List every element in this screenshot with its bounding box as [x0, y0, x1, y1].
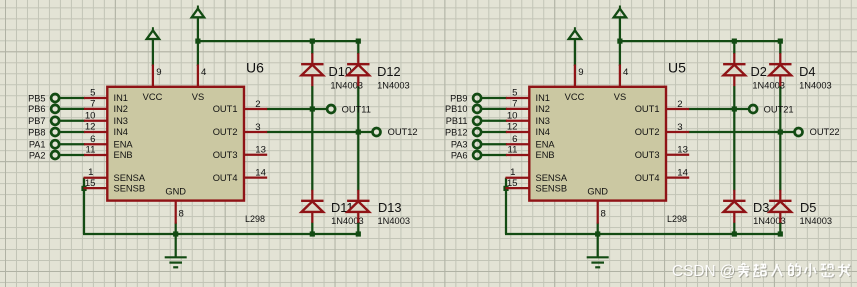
svg-text:OUT11: OUT11: [342, 104, 371, 114]
svg-text:OUT12: OUT12: [388, 127, 418, 137]
svg-text:OUT1: OUT1: [213, 104, 238, 114]
svg-text:ENB: ENB: [536, 150, 555, 160]
svg-text:6: 6: [90, 134, 95, 145]
svg-text:5: 5: [90, 88, 95, 99]
svg-text:PA1: PA1: [29, 140, 46, 150]
svg-text:10: 10: [85, 110, 96, 121]
svg-text:SENSA: SENSA: [114, 173, 146, 183]
svg-text:1N4003: 1N4003: [378, 216, 411, 226]
svg-text:IN4: IN4: [114, 127, 128, 137]
svg-text:1: 1: [88, 167, 93, 178]
svg-text:6: 6: [512, 134, 517, 145]
svg-text:U6: U6: [246, 60, 264, 76]
svg-text:14: 14: [677, 167, 688, 178]
svg-text:7: 7: [90, 99, 95, 110]
svg-text:1: 1: [510, 167, 515, 178]
svg-text:PA6: PA6: [451, 150, 468, 160]
svg-text:PA3: PA3: [451, 140, 468, 150]
svg-text:OUT4: OUT4: [635, 173, 660, 183]
svg-text:OUT2: OUT2: [635, 127, 660, 137]
svg-text:9: 9: [578, 67, 583, 78]
svg-text:12: 12: [85, 122, 96, 133]
svg-text:SENSB: SENSB: [114, 183, 146, 193]
svg-text:9: 9: [156, 67, 161, 78]
svg-text:IN1: IN1: [536, 93, 550, 103]
svg-text:ENA: ENA: [114, 139, 134, 149]
svg-text:10: 10: [507, 110, 518, 121]
svg-text:PB6: PB6: [28, 104, 45, 114]
svg-text:VS: VS: [192, 92, 204, 102]
svg-text:D4: D4: [799, 64, 815, 79]
svg-text:3: 3: [255, 122, 260, 133]
svg-text:13: 13: [255, 145, 266, 156]
svg-text:OUT21: OUT21: [764, 104, 794, 114]
svg-text:ENB: ENB: [114, 150, 133, 160]
svg-text:PB10: PB10: [445, 104, 467, 114]
svg-text:4: 4: [201, 67, 207, 78]
svg-text:PB8: PB8: [28, 127, 45, 137]
svg-text:OUT4: OUT4: [213, 173, 238, 183]
svg-text:15: 15: [85, 178, 96, 189]
svg-text:IN1: IN1: [114, 93, 128, 103]
svg-text:GND: GND: [587, 187, 608, 197]
svg-text:IN4: IN4: [536, 127, 550, 137]
svg-text:14: 14: [255, 167, 266, 178]
svg-text:D2: D2: [751, 64, 767, 79]
svg-text:1N4003: 1N4003: [800, 216, 833, 226]
svg-text:OUT3: OUT3: [213, 150, 238, 160]
svg-text:ENA: ENA: [536, 139, 556, 149]
svg-text:L298: L298: [245, 214, 265, 224]
svg-text:OUT1: OUT1: [635, 104, 660, 114]
svg-text:OUT2: OUT2: [213, 127, 238, 137]
svg-text:IN2: IN2: [114, 104, 128, 114]
svg-text:OUT22: OUT22: [810, 127, 840, 137]
svg-text:IN3: IN3: [114, 116, 128, 126]
svg-text:PB7: PB7: [28, 116, 45, 126]
svg-text:SENSA: SENSA: [536, 173, 568, 183]
svg-text:2: 2: [255, 99, 260, 110]
svg-text:8: 8: [601, 209, 606, 220]
svg-text:D13: D13: [378, 200, 401, 215]
svg-text:5: 5: [512, 88, 517, 99]
svg-text:D12: D12: [377, 64, 400, 79]
svg-text:PB11: PB11: [446, 116, 468, 126]
svg-text:IN3: IN3: [536, 116, 550, 126]
svg-text:SENSB: SENSB: [536, 183, 568, 193]
svg-text:IN2: IN2: [536, 104, 550, 114]
svg-text:11: 11: [86, 145, 96, 156]
svg-text:PB9: PB9: [450, 93, 467, 103]
svg-text:D5: D5: [800, 200, 816, 215]
svg-text:2: 2: [677, 99, 682, 110]
svg-text:8: 8: [179, 209, 184, 220]
svg-text:1N4003: 1N4003: [799, 81, 832, 91]
svg-text:1N4003: 1N4003: [377, 81, 410, 91]
svg-text:12: 12: [507, 122, 518, 133]
svg-text:CSDN @: CSDN @: [672, 263, 736, 280]
svg-text:OUT3: OUT3: [635, 150, 660, 160]
svg-text:VS: VS: [614, 92, 626, 102]
svg-text:L298: L298: [667, 214, 687, 224]
svg-text:PB12: PB12: [445, 127, 467, 137]
svg-text:3: 3: [677, 122, 682, 133]
svg-text:D3: D3: [753, 200, 769, 215]
svg-text:13: 13: [677, 145, 688, 156]
svg-text:PB5: PB5: [28, 93, 45, 103]
svg-text:15: 15: [507, 178, 518, 189]
svg-text:PA2: PA2: [29, 150, 46, 160]
svg-text:4: 4: [623, 67, 629, 78]
svg-text:U5: U5: [668, 60, 686, 76]
svg-text:VCC: VCC: [565, 92, 585, 102]
svg-text:11: 11: [508, 145, 518, 156]
svg-text:D10: D10: [329, 64, 352, 79]
svg-text:VCC: VCC: [143, 92, 163, 102]
svg-text:7: 7: [512, 99, 517, 110]
svg-text:GND: GND: [165, 187, 186, 197]
